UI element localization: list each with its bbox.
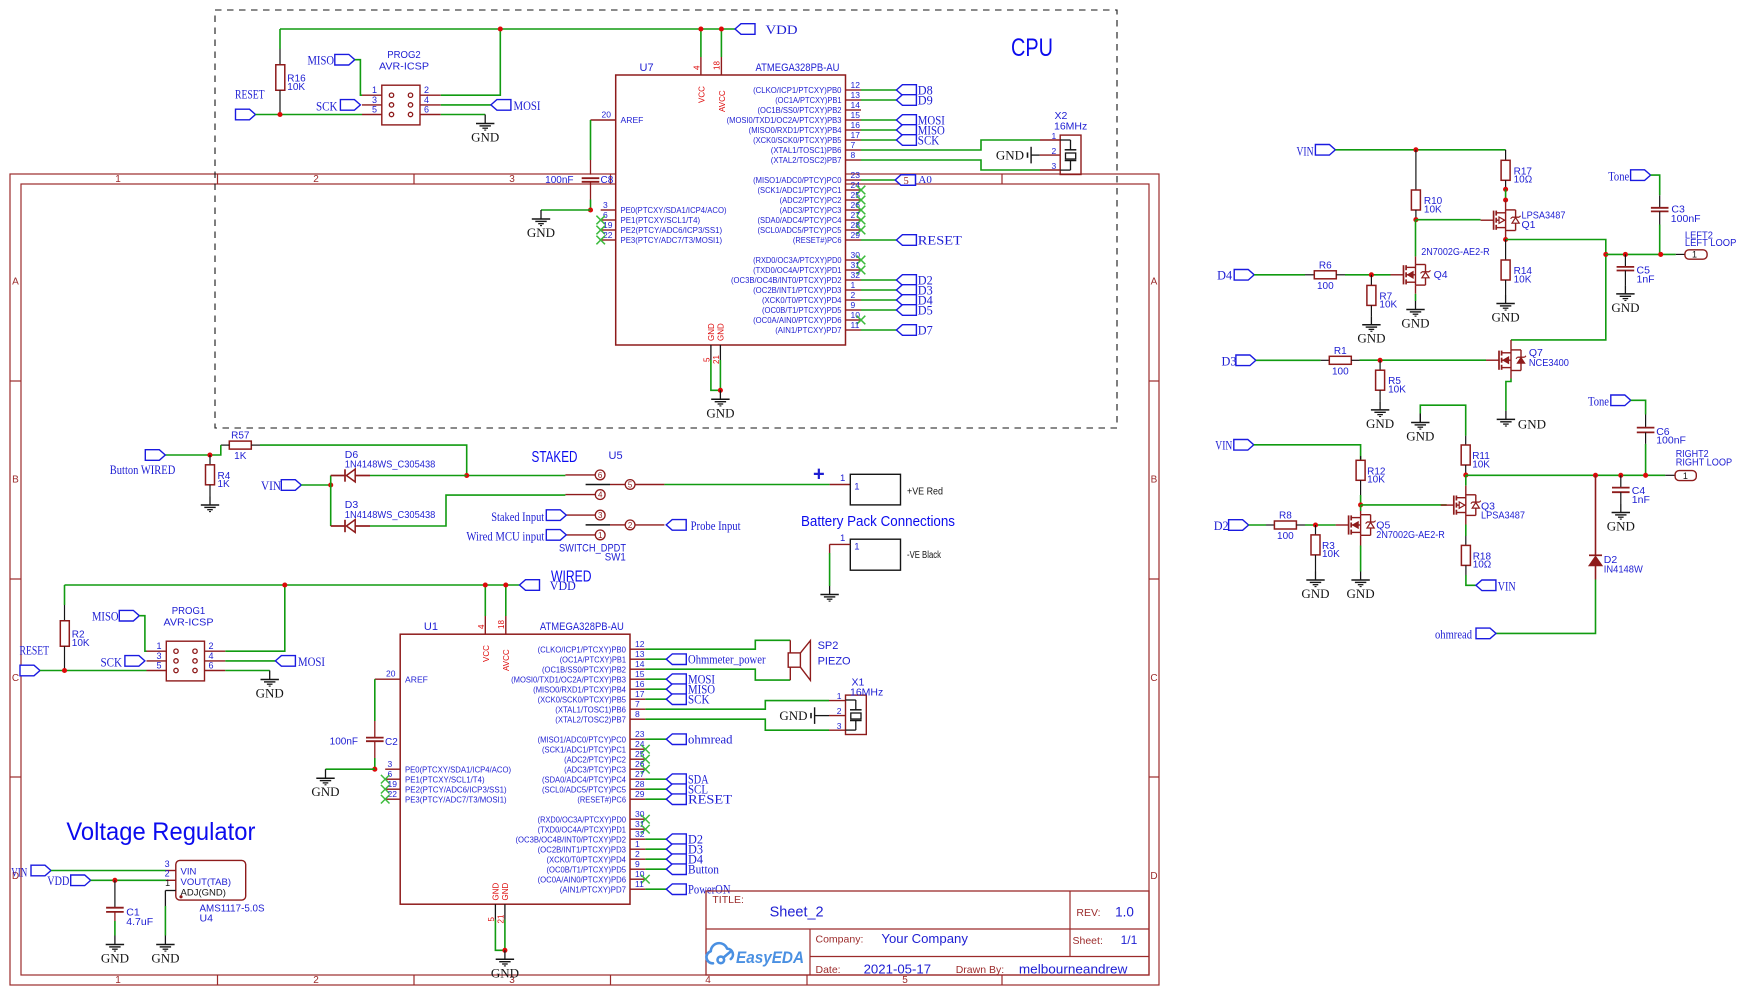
wire Q4 drain up (1415, 256, 1417, 264)
wire R2 top lead (64, 585, 66, 605)
speaker SP2 PIEZO (789, 640, 791, 653)
svg-text:3: 3 (165, 859, 170, 869)
svg-text:Sheet_2: Sheet_2 (770, 905, 824, 921)
U7 right pins (846, 89, 862, 91)
svg-text:PE2(PTCY/ADC6/ICP3/SS1): PE2(PTCY/ADC6/ICP3/SS1) (621, 225, 723, 235)
svg-text:Company:: Company: (816, 933, 864, 945)
svg-text:VIN: VIN (181, 866, 197, 877)
svg-text:SCK: SCK (688, 693, 710, 707)
wire left loop tap to port (1606, 253, 1676, 255)
svg-text:(MISO0/RXD1/PTCXY)PB4: (MISO0/RXD1/PTCXY)PB4 (533, 684, 626, 694)
svg-text:AVR-ICSP: AVR-ICSP (164, 617, 214, 629)
net flag VIN (regulator) (31, 865, 51, 876)
svg-text:A0: A0 (918, 174, 932, 186)
junction dot R5 top (1378, 358, 1383, 363)
switch lever pin2 (586, 524, 610, 526)
svg-text:LEFT LOOP: LEFT LOOP (1685, 238, 1737, 249)
resistor R17 10ohm (1505, 150, 1507, 160)
junction dot U1 ground (502, 948, 507, 953)
wire Q5 drain up (1360, 511, 1362, 515)
svg-text:27: 27 (635, 769, 645, 779)
svg-text:GND: GND (996, 148, 1024, 163)
svg-text:PROG1: PROG1 (172, 605, 206, 617)
wire D6 to node (370, 475, 467, 477)
svg-text:(ADC3/PTCY)PC3: (ADC3/PTCY)PC3 (780, 205, 842, 215)
svg-text:-VE Black: -VE Black (907, 550, 942, 561)
wire R10 to Q1 gate (1416, 219, 1481, 221)
net flag VDD (735, 24, 755, 35)
svg-text:6: 6 (424, 105, 429, 115)
svg-text:RESET: RESET (688, 793, 732, 807)
svg-text:GND: GND (1357, 331, 1385, 346)
svg-text:C2: C2 (385, 737, 398, 748)
net flag SCK (PROG2) (340, 100, 360, 111)
svg-text:VIN: VIN (1498, 579, 1516, 593)
svg-text:4: 4 (424, 95, 429, 105)
ground below U7 (719, 390, 721, 399)
svg-text:10K: 10K (72, 638, 90, 649)
svg-text:MOSI: MOSI (514, 99, 541, 113)
junction dot R11 bottom / Q3 source (1463, 473, 1468, 478)
svg-text:IN4148W: IN4148W (1604, 564, 1643, 576)
svg-text:(SCK1/ADC1/PTCY)PC1: (SCK1/ADC1/PTCY)PC1 (542, 744, 626, 754)
svg-text:GND: GND (1492, 310, 1520, 325)
svg-text:1nF: 1nF (1637, 273, 1655, 285)
wire R12 to Q3 gate (1361, 504, 1447, 506)
capacitor C5 1nF (1623, 252, 1628, 257)
svg-text:22: 22 (603, 230, 613, 240)
svg-text:(OC2B/INT1/PTCXY)PD3: (OC2B/INT1/PTCXY)PD3 (753, 285, 842, 295)
svg-text:(ADC2/PTCY)PC2: (ADC2/PTCY)PC2 (780, 195, 842, 205)
svg-text:B: B (1151, 475, 1158, 486)
svg-text:(CLKO/ICP1/PTCXY)PB0: (CLKO/ICP1/PTCXY)PB0 (538, 644, 627, 654)
wire U7 GND pins to ground (711, 360, 721, 390)
net flag D4 (1234, 270, 1254, 281)
svg-text:GND: GND (1406, 429, 1434, 444)
svg-text:D4: D4 (1217, 269, 1233, 283)
resistor R12 10K (1360, 456, 1362, 460)
svg-text:LPSA3487: LPSA3487 (1481, 509, 1525, 521)
svg-text:(RXD0/OC3A/PTCXY)PD0: (RXD0/OC3A/PTCXY)PD0 (538, 814, 627, 824)
svg-text:PE3(PTCY/ADC7/T3/MOSI1): PE3(PTCY/ADC7/T3/MOSI1) (621, 235, 723, 245)
svg-text:GND: GND (1301, 586, 1329, 601)
svg-text:RIGHT LOOP: RIGHT LOOP (1676, 457, 1733, 468)
svg-text:(OC2B/INT1/PTCXY)PD3: (OC2B/INT1/PTCXY)PD3 (538, 844, 627, 854)
svg-text:GND: GND (101, 951, 129, 966)
svg-text:D5: D5 (918, 303, 933, 317)
ground below PROG1 (269, 671, 271, 680)
sheet frame outer border (10, 174, 1159, 985)
wire VIN to diodes (301, 484, 330, 486)
svg-text:GND: GND (1518, 416, 1546, 431)
svg-text:(OC1A/PTCXY)PB1: (OC1A/PTCXY)PB1 (775, 95, 841, 105)
svg-text:GND: GND (151, 951, 179, 966)
svg-text:100: 100 (1277, 531, 1294, 542)
svg-text:GND: GND (501, 883, 510, 901)
svg-text:GND: GND (779, 708, 807, 723)
ground middle riser (1419, 414, 1421, 423)
ground below PROG2 (484, 115, 486, 124)
svg-text:100: 100 (1317, 281, 1334, 292)
U7 bottom GND pins 5,21 (710, 345, 712, 360)
wire left loop net (1506, 240, 1606, 340)
svg-text:PE1(PTCXY/SCL1/T4): PE1(PTCXY/SCL1/T4) (621, 215, 701, 225)
svg-text:5: 5 (156, 661, 161, 671)
svg-text:9: 9 (851, 300, 856, 310)
svg-text:GND: GND (1347, 586, 1375, 601)
wire PROG1 pin4 to MOSI (225, 660, 275, 662)
svg-text:Q1: Q1 (1522, 219, 1536, 231)
svg-text:(XTAL2/TOSC2)PB7: (XTAL2/TOSC2)PB7 (555, 714, 626, 724)
svg-text:SP2: SP2 (818, 640, 839, 652)
svg-text:(XCK0/T0/PTCXY)PD4: (XCK0/T0/PTCXY)PD4 (546, 854, 626, 864)
capacitor C3 100nF (1651, 175, 1660, 195)
svg-text:CPU: CPU (1011, 34, 1053, 62)
U1 AREF pin 20 (375, 678, 400, 680)
svg-text:PE3(PTCY/ADC7/T3/MOSI1): PE3(PTCY/ADC7/T3/MOSI1) (405, 794, 507, 804)
svg-text:15: 15 (635, 669, 645, 679)
wire RESET to PROG2 pin5 (256, 114, 363, 116)
svg-text:5: 5 (904, 176, 909, 187)
svg-text:STAKED: STAKED (532, 449, 578, 466)
wire VIN rail right (1335, 149, 1505, 151)
svg-text:NCE3400: NCE3400 (1529, 357, 1569, 369)
svg-text:GND: GND (471, 130, 499, 145)
svg-text:10K: 10K (1424, 204, 1442, 215)
wire R2 bottom lead (64, 646, 66, 670)
IC U7 ATMEGA328PB-AU body (616, 75, 846, 345)
svg-text:D2: D2 (1214, 519, 1229, 533)
svg-text:C: C (12, 673, 19, 684)
svg-text:4: 4 (705, 975, 711, 986)
resistor R5 10K (1379, 360, 1381, 370)
transistor Q4 2N7002G-AE2-R (1391, 274, 1404, 276)
wire U1 PB6 to crystal X1 pin1 (645, 701, 829, 710)
svg-text:A: A (12, 277, 19, 288)
svg-text:GND: GND (1366, 416, 1394, 431)
svg-text:(MOSI0/TXD1/OC2A/PTCXY)PB3: (MOSI0/TXD1/OC2A/PTCXY)PB3 (511, 674, 626, 684)
svg-text:1K: 1K (234, 451, 247, 462)
svg-text:VCC: VCC (482, 645, 491, 662)
svg-text:ATMEGA328PB-AU: ATMEGA328PB-AU (540, 621, 624, 633)
wire U1 PB2 to piezo pin2 (645, 669, 790, 680)
connector PROG1 AVR-ICSP (166, 641, 204, 681)
resistor R6 100 (1305, 274, 1314, 276)
net flag D2 (driver) (1229, 520, 1249, 531)
svg-text:3: 3 (837, 721, 842, 731)
ground below R4 (209, 497, 211, 506)
junction dot VDD/pin2 (498, 26, 503, 31)
wire MISO to PROG1 pin1 (139, 616, 146, 652)
diode D3 1N4148WS_C305438 (330, 485, 332, 526)
svg-text:7: 7 (635, 699, 640, 709)
svg-text:10K: 10K (1514, 274, 1532, 285)
svg-text:1: 1 (372, 85, 377, 95)
U7 left pins PE0-PE3 (601, 209, 616, 211)
wire U1 PB0 to piezo pin1 (645, 640, 790, 649)
svg-text:100nF: 100nF (545, 175, 573, 186)
svg-text:D7: D7 (918, 323, 933, 337)
svg-text:(OC0B/T1/PTCXY)PD5: (OC0B/T1/PTCXY)PD5 (546, 864, 626, 874)
ground below U4 (164, 936, 166, 945)
svg-text:Tone: Tone (1608, 170, 1629, 184)
svg-text:2: 2 (313, 975, 319, 986)
svg-text:1: 1 (851, 280, 856, 290)
resistor R1 100 (1321, 359, 1330, 361)
svg-text:16MHz: 16MHz (1054, 121, 1087, 133)
svg-text:RESET: RESET (235, 88, 265, 102)
svg-text:2N7002G-AE2-R: 2N7002G-AE2-R (1421, 246, 1490, 258)
svg-text:GND: GND (1607, 519, 1635, 534)
svg-text:VOUT(TAB): VOUT(TAB) (181, 877, 232, 888)
U4 pin1 to ground (165, 890, 175, 892)
svg-text:22: 22 (388, 789, 398, 799)
svg-text:10K: 10K (1367, 475, 1385, 486)
svg-text:(XTAL1/TOSC1)PB6: (XTAL1/TOSC1)PB6 (771, 145, 842, 155)
svg-text:1nF: 1nF (1632, 494, 1650, 506)
net flag Tone (left) (1631, 170, 1651, 181)
svg-text:3: 3 (1051, 161, 1056, 171)
svg-text:1: 1 (1683, 471, 1688, 481)
capacitor C6 100nF (1631, 400, 1646, 414)
net flag VIN (left driver) (1315, 145, 1335, 156)
svg-text:10K: 10K (1379, 300, 1397, 311)
svg-text:Ohmmeter_power: Ohmmeter_power (688, 653, 766, 667)
svg-text:1: 1 (598, 531, 603, 540)
svg-text:23: 23 (635, 729, 645, 739)
svg-text:TITLE:: TITLE: (712, 894, 744, 906)
junction dot C1 (112, 878, 117, 883)
net flag ohmread (right) (1476, 628, 1496, 639)
svg-text:10K: 10K (1472, 459, 1490, 470)
svg-text:2021-05-17: 2021-05-17 (864, 961, 932, 976)
net flag VIN (R18) (1476, 580, 1496, 591)
wire MISO to PROG2 pin1 (355, 60, 362, 95)
wire VDD rail lower (65, 584, 520, 586)
svg-text:1: 1 (854, 482, 859, 493)
svg-text:Button WIRED: Button WIRED (110, 463, 176, 477)
svg-text:AREF: AREF (621, 115, 644, 125)
resistor R14 10K (1505, 240, 1507, 261)
svg-text:8: 8 (635, 709, 640, 719)
svg-text:3: 3 (372, 95, 377, 105)
svg-text:9: 9 (635, 859, 640, 869)
net flag RESET (lower) (20, 665, 40, 676)
svg-text:+: + (813, 464, 825, 486)
svg-text:Q4: Q4 (1434, 269, 1448, 281)
svg-text:6: 6 (603, 210, 608, 220)
wire R1 to Q7 gate (1360, 359, 1487, 361)
svg-text:AVCC: AVCC (502, 649, 511, 671)
wire PROG2 pin4 to MOSI (441, 104, 491, 106)
svg-text:SCK: SCK (918, 133, 940, 147)
ground below Q5 (1360, 572, 1362, 581)
ground below C1 (114, 936, 116, 945)
svg-text:D: D (1150, 871, 1157, 882)
svg-text:Probe Input: Probe Input (691, 519, 741, 533)
wire switch pin5 to battery + (664, 484, 829, 486)
CPU section dashed boundary (215, 10, 1117, 428)
svg-text:1: 1 (854, 542, 859, 553)
capacitor C4 1nF (1618, 473, 1623, 478)
svg-text:(OC1A/PTCXY)PB1: (OC1A/PTCXY)PB1 (560, 654, 626, 664)
ground at C8/PE0 (540, 210, 542, 219)
svg-text:(OC3B/OC4B/INT0/PTCXY)PD2: (OC3B/OC4B/INT0/PTCXY)PD2 (731, 275, 842, 285)
net flag MOSI (PROG1) (275, 656, 295, 667)
wire battery - to ground (830, 543, 851, 545)
wire VDD rail top (280, 28, 735, 30)
svg-text:11: 11 (851, 320, 860, 330)
wire Q4 source down (1415, 285, 1417, 294)
svg-text:3: 3 (388, 759, 393, 769)
svg-text:(OC0A/AIN0/PTCXY)PD6: (OC0A/AIN0/PTCXY)PD6 (753, 315, 842, 325)
diode D6 1N4148WS_C305438 (331, 475, 345, 477)
svg-text:GND: GND (256, 686, 284, 701)
U7 AVCC pin 18 (720, 57, 722, 75)
wire R16 bottom lead (279, 90, 281, 114)
svg-text:2: 2 (628, 521, 633, 530)
port RIGHT2 RIGHT LOOP (1675, 471, 1696, 481)
svg-text:VIN: VIN (1297, 144, 1314, 158)
junction dot C6 bottom (1643, 473, 1648, 478)
svg-text:2: 2 (313, 174, 319, 185)
svg-text:15: 15 (851, 110, 861, 120)
svg-text:17: 17 (635, 689, 645, 699)
svg-text:ohmread: ohmread (1435, 627, 1473, 641)
svg-text:(AIN1/PTCXY)PD7: (AIN1/PTCXY)PD7 (560, 884, 626, 894)
svg-text:SCK: SCK (101, 655, 123, 669)
svg-text:PIEZO: PIEZO (818, 655, 851, 667)
svg-text:(TXD0/OC4A/PTCXY)PD1: (TXD0/OC4A/PTCXY)PD1 (538, 824, 627, 834)
wire U1 PB7 to crystal X1 pin3 (645, 719, 829, 730)
svg-text:(ADC2/PTCY)PC2: (ADC2/PTCY)PC2 (564, 754, 626, 764)
resistor R16 (276, 65, 285, 91)
svg-text:(OC0B/T1/PTCXY)PD5: (OC0B/T1/PTCXY)PD5 (762, 305, 842, 315)
svg-text:GND: GND (527, 225, 555, 240)
U1 left pins PE0-PE3 (385, 768, 400, 770)
ground at C2/PE0 (325, 769, 327, 778)
junction dot R10 top (1413, 147, 1418, 152)
resistor R10 10K (1415, 150, 1417, 190)
svg-text:2: 2 (635, 849, 640, 859)
svg-text:18: 18 (713, 61, 722, 70)
svg-text:11: 11 (635, 879, 644, 889)
svg-text:Tone: Tone (1588, 394, 1609, 408)
wire PE0 to GND (541, 209, 591, 211)
svg-text:B: B (12, 475, 19, 486)
svg-text:1: 1 (115, 174, 121, 185)
wire PROG1 pin6 to GND (225, 670, 269, 672)
svg-text:6: 6 (598, 471, 603, 480)
junction dot R3 top (1313, 522, 1318, 527)
svg-text:32: 32 (635, 829, 645, 839)
sheet frame inner border (21, 184, 1149, 975)
IC U1 ATMEGA328PB-AU body (400, 634, 630, 904)
capacitor C2 100nF (366, 737, 384, 739)
svg-text:16: 16 (851, 120, 861, 130)
svg-text:2: 2 (837, 706, 842, 716)
svg-text:10Ω: 10Ω (1514, 175, 1533, 186)
wire U7 PB6 to crystal X2 pin1 (861, 140, 1040, 150)
svg-text:A: A (1151, 277, 1158, 288)
wire PROG2 pin6 to GND (441, 114, 485, 116)
wire D3 to R1 (1256, 359, 1321, 361)
capacitor C1 4.7uF (114, 880, 116, 907)
svg-text:Sheet:: Sheet: (1073, 935, 1103, 947)
svg-text:RESET: RESET (20, 644, 50, 658)
svg-text:GND: GND (491, 965, 519, 980)
svg-text:VDD: VDD (766, 23, 798, 37)
ground below R5 (1379, 401, 1381, 410)
svg-text:1: 1 (115, 975, 121, 986)
svg-text:(ADC3/PTCY)PC3: (ADC3/PTCY)PC3 (564, 764, 626, 774)
svg-text:(SDA0/ADC4/PTCY)PC4: (SDA0/ADC4/PTCY)PC4 (758, 215, 842, 225)
resistor R8 100 (1266, 524, 1274, 526)
svg-text:1N4148WS_C305438: 1N4148WS_C305438 (345, 459, 436, 471)
wire VIN to U4 pin3 (51, 870, 166, 872)
U1 VCC pin 4 (484, 616, 486, 634)
wire R6 to Q4 gate (1345, 274, 1391, 276)
svg-text:(XCK0/T0/PTCXY)PD4: (XCK0/T0/PTCXY)PD4 (762, 295, 842, 305)
wire PROG1 pin2 to VDD (225, 585, 284, 651)
svg-text:5: 5 (628, 481, 633, 490)
svg-text:D3: D3 (1222, 354, 1237, 368)
svg-text:6: 6 (388, 769, 393, 779)
svg-text:GND: GND (1611, 300, 1639, 315)
svg-text:1: 1 (837, 691, 842, 701)
capacitor C8 100nF (582, 177, 600, 179)
junction dot VDD/pin2 lower (282, 582, 287, 587)
svg-text:(OC3B/OC4B/INT0/PTCXY)PD2: (OC3B/OC4B/INT0/PTCXY)PD2 (516, 834, 627, 844)
wire R57 right to switch pin6 node (260, 445, 565, 475)
junction dot U7 ground (718, 388, 723, 393)
svg-text:5: 5 (372, 105, 377, 115)
svg-text:D9: D9 (918, 93, 933, 107)
svg-text:(TXD0/OC4A/PTCXY)PD1: (TXD0/OC4A/PTCXY)PD1 (753, 265, 842, 275)
svg-text:6: 6 (209, 661, 214, 671)
port LEFT2 LEFT LOOP (1685, 250, 1707, 259)
svg-text:4.7uF: 4.7uF (126, 916, 153, 928)
svg-text:(MISO1/ADC0/PTCY)PC0: (MISO1/ADC0/PTCY)PC0 (753, 175, 842, 185)
net flag SCK (PROG1) (125, 656, 145, 667)
svg-text:5: 5 (487, 917, 496, 922)
svg-text:(OC1B/SS0/PTCXY)PB2: (OC1B/SS0/PTCXY)PB2 (542, 664, 626, 674)
svg-text:21: 21 (496, 914, 505, 923)
svg-text:U4: U4 (200, 913, 214, 925)
svg-text:PE0(PTCXY/SDA1/ICP4/ACO): PE0(PTCXY/SDA1/ICP4/ACO) (405, 764, 511, 774)
svg-text:14: 14 (635, 659, 645, 669)
wire Q7 source to ground (1510, 371, 1512, 379)
wire VIN to R12 (1254, 445, 1361, 460)
svg-text:1: 1 (1051, 131, 1056, 141)
net flag Probe Input (666, 520, 686, 531)
svg-text:10K: 10K (1322, 549, 1340, 560)
svg-text:(MISO1/ADC0/PTCY)PC0: (MISO1/ADC0/PTCY)PC0 (538, 734, 627, 744)
svg-text:(SCL0/ADC5/PTCY)PC5: (SCL0/ADC5/PTCY)PC5 (542, 784, 626, 794)
svg-text:C8: C8 (601, 175, 614, 186)
wire R16 top lead (279, 29, 281, 49)
svg-text:100: 100 (1332, 366, 1349, 377)
transistor Q1 LPSA3487 (1505, 200, 1507, 210)
svg-text:GND: GND (706, 405, 734, 420)
EasyEDA logo (706, 943, 732, 963)
ground below Q4 (1415, 301, 1417, 310)
U7 VCC pin 4 (700, 57, 702, 75)
junction dot R7 top (1369, 272, 1374, 277)
switch lever pin5 (586, 484, 610, 486)
svg-text:(XCK0/SCK0/PTCXY)PB5: (XCK0/SCK0/PTCXY)PB5 (538, 694, 627, 704)
svg-text:GND: GND (707, 323, 716, 341)
